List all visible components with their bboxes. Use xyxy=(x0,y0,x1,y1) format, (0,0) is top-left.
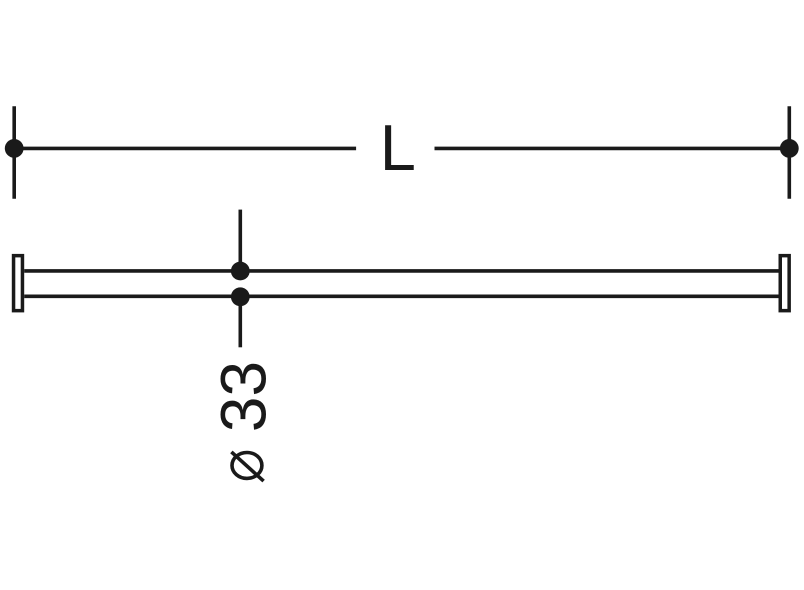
node: dimension endpoint dot left xyxy=(5,139,24,158)
wire: vertical diameter dimension line lower segment xyxy=(239,297,243,348)
wire: dimension line left segment xyxy=(14,147,356,151)
wire: rod bottom outline xyxy=(24,294,778,298)
node: diameter dimension dot bottom xyxy=(231,287,250,306)
svg-text:L: L xyxy=(380,111,416,184)
svg-text:33: 33 xyxy=(208,361,280,432)
wire: rod top outline xyxy=(24,269,778,273)
node: rod left end cap xyxy=(14,256,23,311)
wire: vertical diameter dimension line upper segment xyxy=(239,210,243,271)
node: dimension endpoint dot right xyxy=(780,139,799,158)
node: diameter symbol circle xyxy=(232,453,262,479)
node: rod right end cap xyxy=(780,256,789,311)
wire: top dimension extension tick left xyxy=(12,106,16,199)
wire: dimension line right segment xyxy=(435,147,790,151)
wire: top dimension extension tick right xyxy=(787,106,791,199)
node: diameter dimension dot top xyxy=(231,262,250,281)
wire: diameter symbol slash xyxy=(231,452,263,481)
